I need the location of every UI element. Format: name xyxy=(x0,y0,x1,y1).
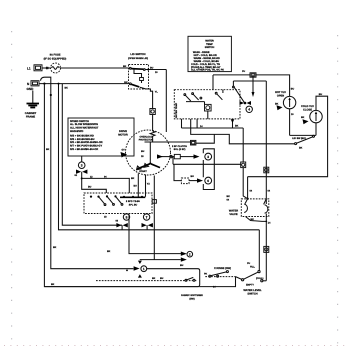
wire across to long right rail xyxy=(233,80,266,82)
svg-text:BU: BU xyxy=(191,175,195,178)
svg-text:BK: BK xyxy=(53,246,57,249)
wire cold valve top to right rail down xyxy=(248,96,328,177)
drop from temp box to bus with arrow xyxy=(232,119,234,128)
svg-text:Y2: Y2 xyxy=(147,183,151,186)
wire circled1 to right edge xyxy=(44,269,199,287)
svg-text:BK: BK xyxy=(227,195,231,198)
svg-text:04: 04 xyxy=(250,189,253,192)
svg-text:10: 10 xyxy=(291,113,294,116)
svg-text:R/3 + BK-BU/BU-BU-OR: R/3 + BK-BU/BU-BU-OR xyxy=(70,148,98,151)
svg-text:OPEN: OPEN xyxy=(277,94,284,97)
svg-text:PK: PK xyxy=(204,272,208,275)
connector on L1 lead xyxy=(34,65,42,71)
drop from box bottom to circle-2 feed xyxy=(129,214,185,254)
svg-text:BK: BK xyxy=(299,147,303,150)
svg-text:CABINET: CABINET xyxy=(25,112,37,115)
wire from connector up to bus xyxy=(196,134,214,143)
svg-text:1: 1 xyxy=(143,267,145,271)
svg-text:SWITCH: SWITCH xyxy=(205,46,215,49)
wire pole2 out bottom xyxy=(140,87,153,108)
lid switch pole 2 xyxy=(129,83,131,85)
svg-text:(FULL): (FULL) xyxy=(256,277,264,280)
svg-text:BU: BU xyxy=(319,93,323,96)
connector on N lead xyxy=(31,81,39,86)
svg-text:BU: BU xyxy=(291,87,295,90)
lid switch pole 1 xyxy=(129,67,131,69)
arrow into cold valve xyxy=(303,119,309,124)
svg-text:04: 04 xyxy=(268,189,271,192)
svg-text:BK: BK xyxy=(65,87,69,90)
svg-text:GY: GY xyxy=(122,149,126,152)
temp box bottom exits to bus xyxy=(182,119,198,128)
page border dots left xyxy=(11,31,13,345)
svg-text:(IF SO EQUIPPED): (IF SO EQUIPPED) xyxy=(44,57,67,60)
svg-text:YL: YL xyxy=(155,91,159,94)
water level switch xyxy=(242,279,244,281)
svg-text:PU: PU xyxy=(242,70,246,73)
svg-text:EMPTY: EMPTY xyxy=(246,284,254,287)
circled 4 xyxy=(246,106,252,112)
svg-text:PROTECTOR: PROTECTOR xyxy=(139,139,154,142)
fabric softener switch dashed line xyxy=(96,280,197,282)
wire lid switch bus down right of motor xyxy=(165,70,167,133)
arrow into hot valve xyxy=(277,105,283,110)
drive motor dashed circle xyxy=(126,130,171,175)
svg-text:WASH/SPD: WASH/SPD xyxy=(70,130,84,133)
svg-text:3: 3 xyxy=(207,155,209,159)
svg-text:BK: BK xyxy=(51,283,55,286)
svg-text:18: 18 xyxy=(141,155,144,158)
svg-text:BK: BK xyxy=(275,102,279,105)
svg-text:2: 2 xyxy=(189,253,191,257)
arrow row below xyxy=(140,259,181,261)
water temp switch legend box xyxy=(188,36,231,71)
arrow and circled 2 xyxy=(181,252,187,256)
svg-text:SWITCH: SWITCH xyxy=(247,293,257,296)
svg-text:(OPEN WHEN LID): (OPEN WHEN LID) xyxy=(128,57,148,60)
svg-text:BK: BK xyxy=(235,125,239,128)
motor internal wire to right xyxy=(145,141,191,143)
motor internal start winding xyxy=(149,142,151,163)
svg-text:START: START xyxy=(139,170,147,173)
svg-text:FABRIC SOFTENER: FABRIC SOFTENER xyxy=(181,294,203,297)
wire long drop right of speed switch xyxy=(153,176,155,260)
wire valve bottoms bus xyxy=(290,123,316,136)
svg-text:VALVE: VALVE xyxy=(229,213,238,216)
arrows and circled 1 xyxy=(138,261,142,264)
svg-text:OVERLOAD: OVERLOAD xyxy=(139,135,152,138)
junction dot node 4 xyxy=(244,102,247,105)
junction on rail at timer exit xyxy=(265,221,267,223)
svg-text:6: 6 xyxy=(207,179,209,183)
drop from bus to water level switch xyxy=(258,230,260,271)
heavy contact bar xyxy=(120,196,145,198)
svg-text:ALL OTHER POS, TN, GY, PK: ALL OTHER POS, TN, GY, PK xyxy=(191,69,224,72)
wire hop from N over to second rail xyxy=(41,77,51,83)
circled 5 xyxy=(126,213,128,216)
page border dots right xyxy=(337,35,339,345)
wire L1 bus to lid switch xyxy=(61,67,129,69)
svg-text:BK: BK xyxy=(152,277,156,280)
row to circled 6 xyxy=(174,164,181,180)
timer box bottom exit xyxy=(246,217,267,222)
svg-text:PU: PU xyxy=(247,262,251,265)
svg-text:CLOSE: CLOSE xyxy=(303,108,312,111)
svg-text:WATER TEMP: WATER TEMP xyxy=(175,102,178,118)
wire top bus with connector xyxy=(213,74,250,76)
wire rail A (N) down and along bottom xyxy=(44,84,199,287)
speed switch legend box xyxy=(68,118,134,156)
fuse F1 (dashed circle with element) xyxy=(51,63,61,73)
svg-text:MOTOR: MOTOR xyxy=(118,134,128,137)
wire L1 to fuse xyxy=(42,67,50,69)
svg-text:BU: BU xyxy=(150,66,154,69)
svg-text:BK: BK xyxy=(107,250,111,253)
svg-text:X RINSE (SW): X RINSE (SW) xyxy=(214,267,231,270)
arrow into motor left xyxy=(121,152,128,158)
svg-text:N: N xyxy=(27,82,30,86)
thermo element xyxy=(205,104,212,111)
svg-text:7: 7 xyxy=(146,215,148,219)
drop to timer via connector xyxy=(242,128,244,162)
bus from temp box to lid lock xyxy=(191,119,295,144)
connector to drive motor xyxy=(150,109,155,115)
svg-text:BK: BK xyxy=(251,218,255,221)
circled 7 xyxy=(146,213,148,216)
svg-text:BK: BK xyxy=(301,116,305,119)
motor bottom exits xyxy=(138,174,145,197)
svg-text:BU: BU xyxy=(180,264,184,267)
ground wire xyxy=(32,91,34,104)
bracket around 3 and 6 xyxy=(203,149,214,190)
svg-text:(SW): (SW) xyxy=(189,297,194,300)
connector on rail xyxy=(264,167,269,173)
temp switch contacts xyxy=(184,94,186,96)
mid wire xyxy=(173,157,241,165)
svg-text:BK: BK xyxy=(131,177,135,180)
svg-text:2 SP CLUTCH: 2 SP CLUTCH xyxy=(172,145,187,148)
wire rail D down, to speed switch xyxy=(62,84,122,226)
wire to hot valve xyxy=(256,75,290,97)
circled 3 right xyxy=(205,153,212,160)
temp knot: blade to junction xyxy=(233,81,244,102)
center contact xyxy=(215,92,217,94)
lid switch internal link xyxy=(134,70,142,78)
svg-text:FILL: FILL xyxy=(250,266,255,269)
svg-text:2 SPD Y2-BU: 2 SPD Y2-BU xyxy=(126,200,140,203)
svg-text:BK: BK xyxy=(124,81,128,84)
svg-text:BK: BK xyxy=(46,148,50,151)
wire rinse to water level switch xyxy=(236,277,243,280)
ground symbol xyxy=(27,104,40,108)
wire rail C down, bus to water level switch xyxy=(59,84,260,230)
svg-text:LID SW (BK): LID SW (BK) xyxy=(292,137,306,140)
svg-text:18: 18 xyxy=(104,216,107,219)
svg-text:BU: BU xyxy=(88,186,92,189)
svg-text:10: 10 xyxy=(155,71,158,74)
svg-text:14: 14 xyxy=(268,221,271,224)
timer switch dashed box xyxy=(241,199,268,217)
speed switch contact box xyxy=(84,193,152,214)
cold water valve solenoid xyxy=(310,110,322,122)
wire rail B down to circle-1 feed xyxy=(51,83,134,269)
svg-text:4: 4 xyxy=(248,108,250,112)
connector on rail lower xyxy=(264,246,269,252)
wire N bus to lid switch xyxy=(39,83,129,85)
svg-text:SOL (2 SP): SOL (2 SP) xyxy=(174,148,186,151)
svg-text:BU: BU xyxy=(141,150,145,153)
svg-text:L1: L1 xyxy=(27,67,31,71)
svg-text:5: 5 xyxy=(126,215,128,219)
hot water valve solenoid xyxy=(283,96,295,108)
connector on motor out wire xyxy=(191,140,196,145)
svg-text:06: 06 xyxy=(116,219,119,222)
arrow down from top xyxy=(252,75,254,92)
circled 3 left with feed xyxy=(81,156,83,162)
motor right row to circled 3 xyxy=(161,156,175,158)
junction N rail xyxy=(43,83,45,85)
svg-text:BU: BU xyxy=(134,185,138,188)
svg-text:BK: BK xyxy=(123,65,127,68)
wire connector to motor xyxy=(152,115,154,132)
svg-text:9A FUSE: 9A FUSE xyxy=(50,54,61,57)
wire pole1 out xyxy=(145,69,166,71)
svg-text:BU: BU xyxy=(160,277,164,280)
svg-text:04: 04 xyxy=(227,199,230,202)
speed switch contacts xyxy=(97,196,99,198)
water temp switch contact box (dashed) xyxy=(174,90,240,119)
svg-text:3: 3 xyxy=(81,164,83,168)
lid lock switch xyxy=(295,143,297,145)
svg-text:04: 04 xyxy=(75,174,78,177)
extra rinse switch xyxy=(205,276,235,278)
circled 6 xyxy=(205,177,212,184)
svg-text:GND: GND xyxy=(27,87,35,91)
lid switch dashed box xyxy=(129,65,149,90)
feed into temp box xyxy=(212,75,214,90)
long vertical right rail xyxy=(265,81,267,204)
svg-text:SPL BU: SPL BU xyxy=(129,203,138,206)
wire bottom rail to rinse switch xyxy=(200,277,236,287)
wire hot valve down xyxy=(289,109,291,136)
page border dots bottom xyxy=(4,345,346,347)
svg-text:LID SWITCH: LID SWITCH xyxy=(130,53,145,56)
svg-text:FRAME: FRAME xyxy=(26,116,35,119)
